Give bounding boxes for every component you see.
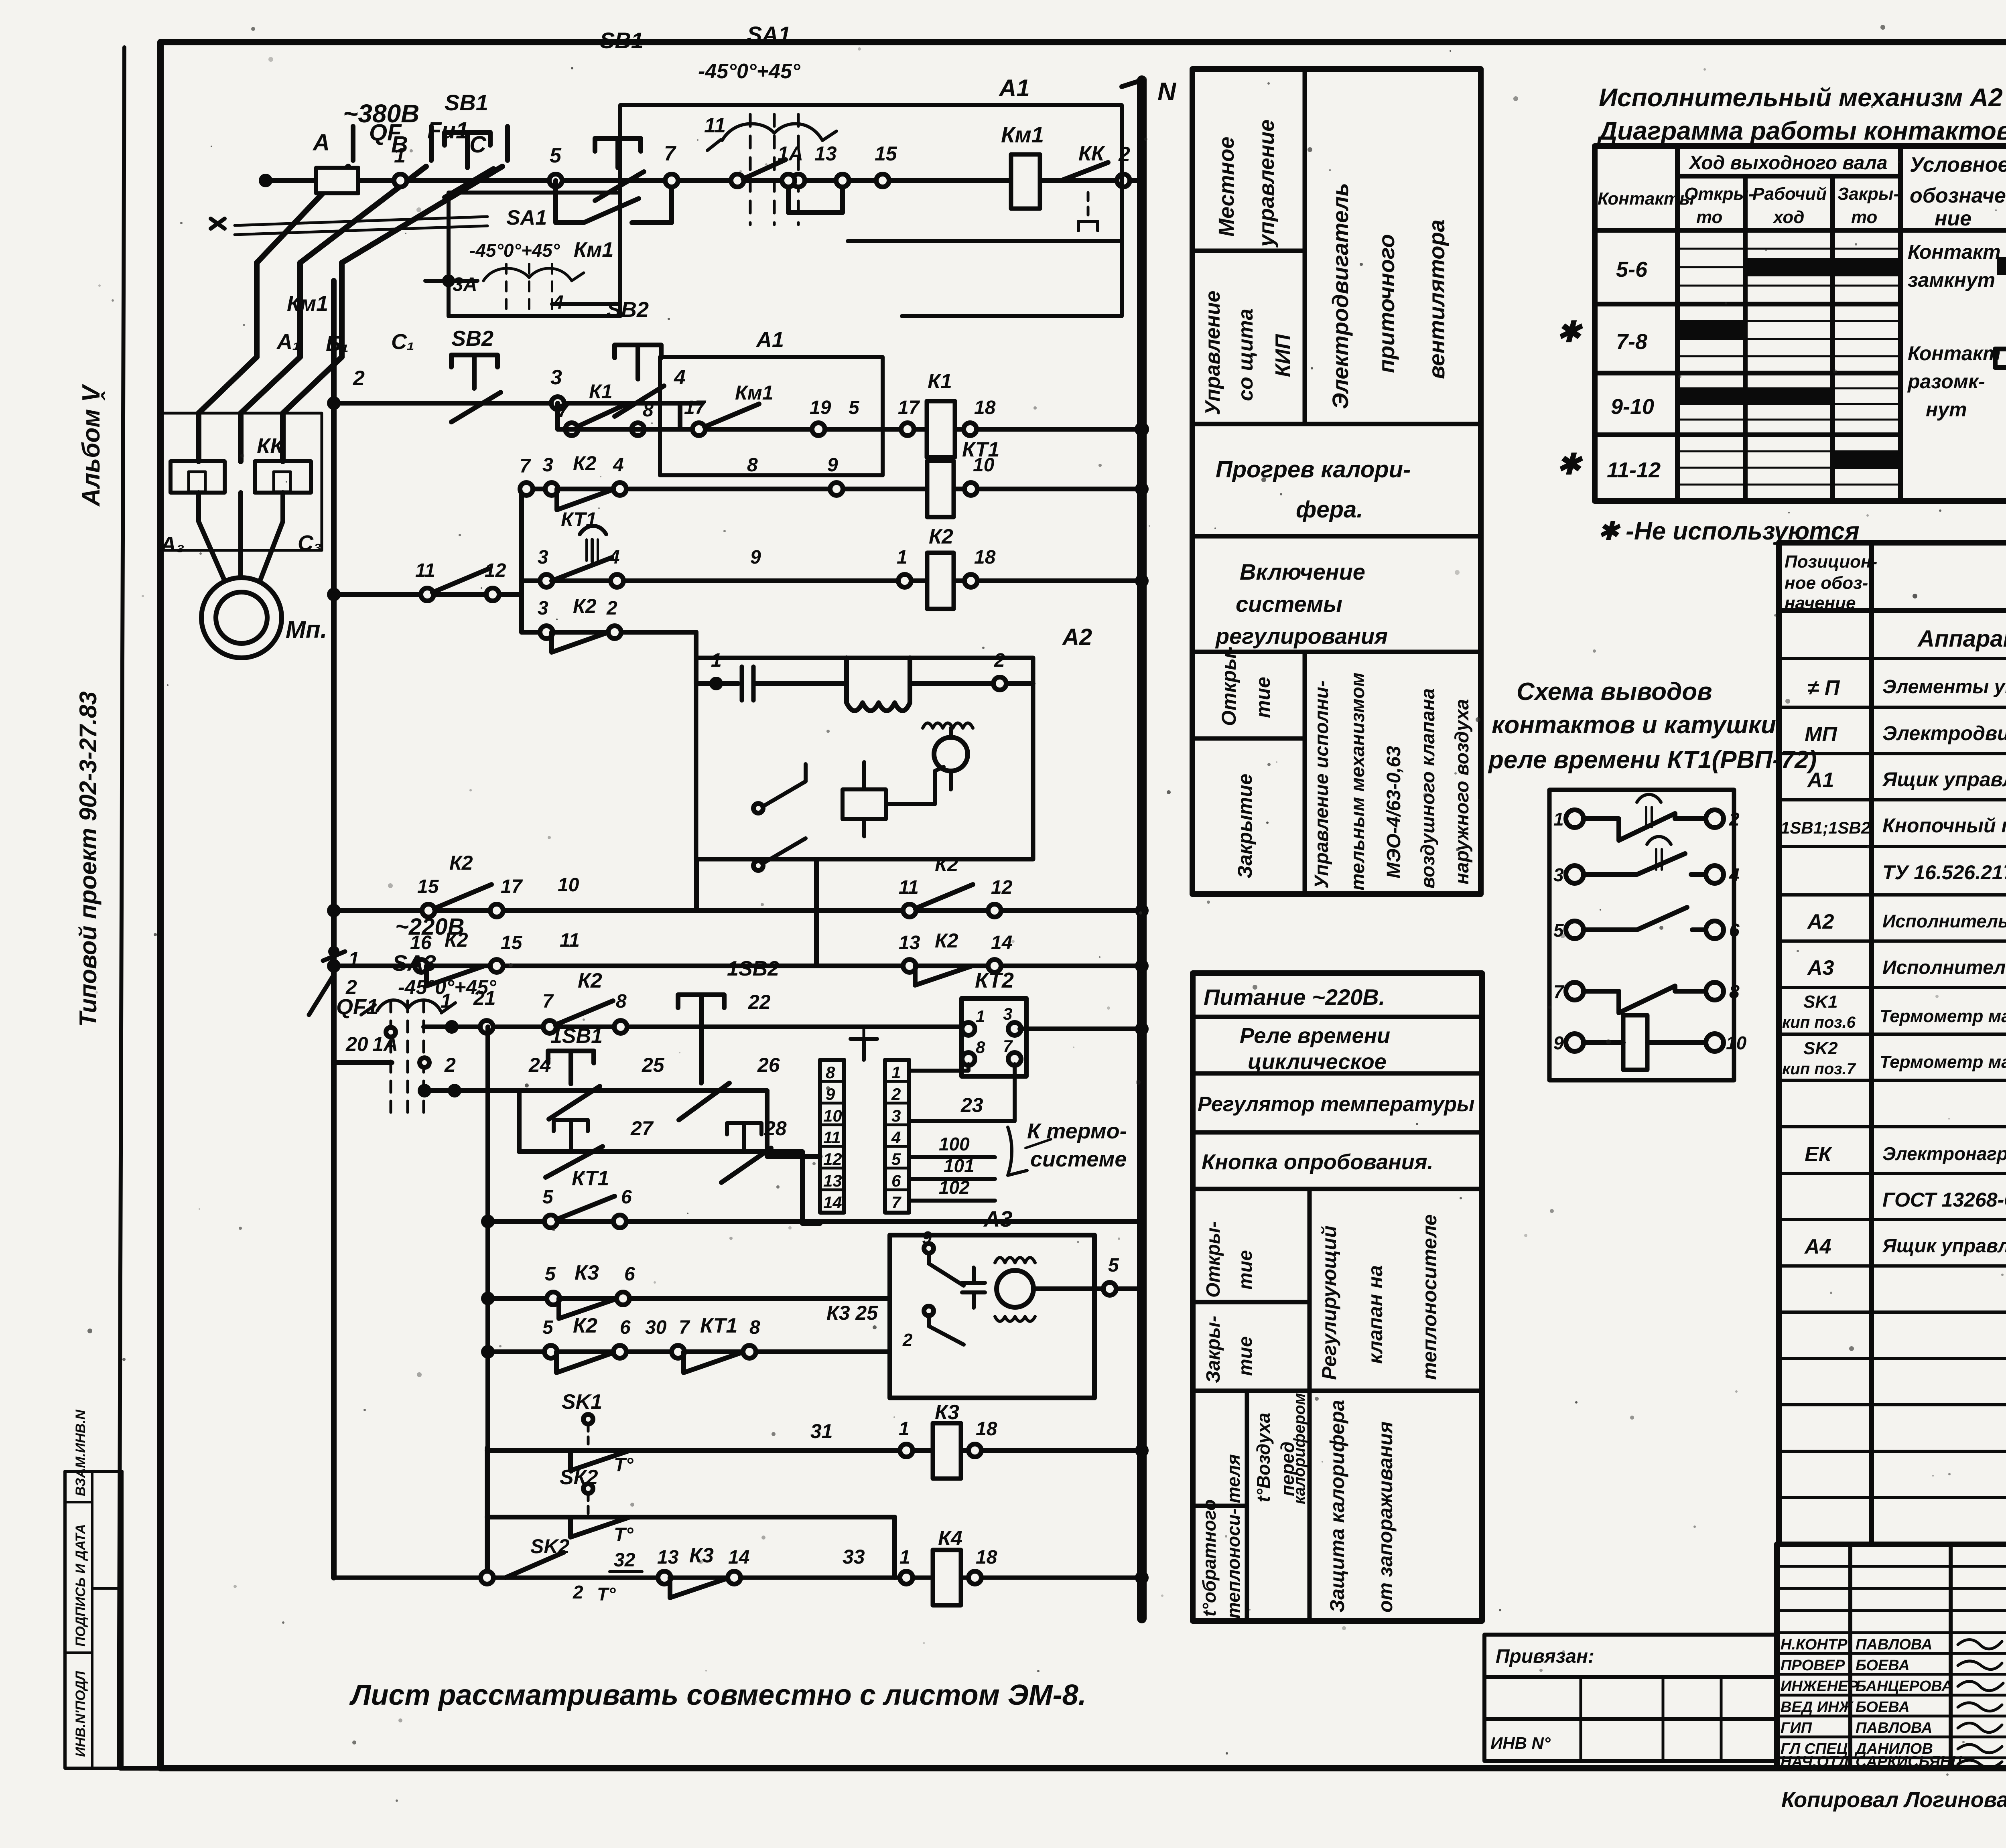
svg-text:SK1: SK1 xyxy=(1803,992,1838,1012)
svg-text:t°Воздуха: t°Воздуха xyxy=(1253,1413,1274,1502)
svg-text:Км1: Км1 xyxy=(574,238,613,262)
svg-text:Мп.: Мп. xyxy=(286,616,327,643)
svg-text:К4: К4 xyxy=(938,1527,962,1550)
contact K2 NC notch xyxy=(557,489,615,510)
black bar row 5-6 xyxy=(1745,258,1900,276)
black bar row 7-8 xyxy=(1677,321,1745,340)
svg-text:то: то xyxy=(1851,207,1877,227)
svg-text:t°обратного: t°обратного xyxy=(1199,1499,1220,1617)
svg-text:Регулятор температуры: Регулятор температуры xyxy=(1198,1093,1474,1116)
svg-text:SK1: SK1 xyxy=(562,1390,602,1414)
svg-text:7: 7 xyxy=(558,400,569,422)
svg-text:18: 18 xyxy=(976,1547,997,1568)
wire row 2-24-1SB1-25-1SB2-26 xyxy=(424,1088,767,1093)
svg-text:Б₁: Б₁ xyxy=(326,332,349,356)
svg-text:QF: QF xyxy=(369,120,402,146)
svg-text:3: 3 xyxy=(1003,1004,1012,1023)
svg-text:11: 11 xyxy=(415,560,435,581)
contact diagram table xyxy=(1595,146,2006,501)
svg-text:101: 101 xyxy=(944,1155,975,1176)
svg-text:Включение: Включение xyxy=(1240,559,1365,584)
svg-text:32: 32 xyxy=(614,1550,636,1571)
relay KT2 box xyxy=(962,998,1026,1076)
parts list table xyxy=(1779,543,2006,1544)
svg-text:САРКИСЬЯНЦ: САРКИСЬЯНЦ xyxy=(1856,1753,1962,1770)
svg-text:2: 2 xyxy=(902,1330,913,1350)
svg-text:1SB1;1SB2: 1SB1;1SB2 xyxy=(1781,818,1870,837)
svg-text:1SB1: 1SB1 xyxy=(550,1024,603,1048)
wire row 16-K2-15-11 and 13-K2-14 xyxy=(334,964,1142,968)
svg-text:Лист рассматривать совместно с: Лист рассматривать совместно с листом ЭМ… xyxy=(349,1679,1086,1711)
svg-text:К термо-: К термо- xyxy=(1027,1119,1127,1143)
svg-text:Управление: Управление xyxy=(1201,291,1224,415)
phase ticks A B C xyxy=(353,126,508,160)
switch 1 in A3 xyxy=(924,1243,934,1253)
svg-text:Км1: Км1 xyxy=(1001,122,1044,147)
node 2 xyxy=(1117,174,1130,187)
svg-text:9: 9 xyxy=(922,1228,932,1248)
contact K1 7-8 parallel branch xyxy=(558,403,680,429)
svg-text:ние: ние xyxy=(1935,207,1971,230)
svg-text:13: 13 xyxy=(823,1171,842,1190)
wire row SK1 to K3 coil xyxy=(487,1448,1142,1453)
svg-text:Контакт: Контакт xyxy=(1908,241,2001,263)
svg-text:нут: нут xyxy=(1926,398,1967,421)
svg-text:А1: А1 xyxy=(1807,769,1834,792)
svg-text:9: 9 xyxy=(827,454,838,476)
node 3 xyxy=(551,397,564,410)
wires to KK xyxy=(199,413,283,461)
svg-text:К3: К3 xyxy=(575,1261,599,1284)
svg-text:кип поз.7: кип поз.7 xyxy=(1782,1060,1856,1078)
svg-text:К2: К2 xyxy=(449,852,473,874)
svg-text:SB1: SB1 xyxy=(445,90,488,115)
wire row K3 5-6 xyxy=(488,1296,890,1301)
wire row 2 SB2 xyxy=(334,401,702,406)
wire row 11-12 from bus xyxy=(334,592,522,597)
svg-text:Контакты: Контакты xyxy=(1598,189,1694,209)
svg-text:К2: К2 xyxy=(935,853,958,876)
svg-text:10: 10 xyxy=(973,454,995,476)
svg-text:ВЗАМ.ИНВ.N: ВЗАМ.ИНВ.N xyxy=(73,1409,88,1496)
svg-text:системы: системы xyxy=(1236,591,1342,617)
svg-text:-45°0°+45°: -45°0°+45° xyxy=(698,60,801,83)
svg-text:SA3: SA3 xyxy=(392,950,436,976)
svg-text:МЭО-4/63-0,63: МЭО-4/63-0,63 xyxy=(1383,746,1405,878)
outer left border line xyxy=(119,47,124,1768)
svg-text:Км1: Км1 xyxy=(287,292,328,316)
svg-text:6: 6 xyxy=(621,1187,632,1208)
svg-text:3: 3 xyxy=(538,547,548,568)
svg-text:5: 5 xyxy=(542,1187,554,1208)
control box A1 lower outline xyxy=(660,357,883,475)
svg-text:23: 23 xyxy=(960,1094,983,1116)
svg-text:Н.КОНТР: Н.КОНТР xyxy=(1781,1636,1848,1653)
svg-text:11: 11 xyxy=(560,930,580,951)
svg-text:реле времени КТ1(РВП-72): реле времени КТ1(РВП-72) xyxy=(1488,746,1817,774)
svg-text:КК: КК xyxy=(257,434,285,458)
svg-text:1: 1 xyxy=(891,1063,901,1082)
svg-text:К1: К1 xyxy=(928,370,952,393)
svg-text:Типовой проект 902-3-27.83: Типовой проект 902-3-27.83 xyxy=(75,692,102,1027)
wire row KT1 5-6 xyxy=(488,1219,1142,1224)
wire KT2 pin8 to strip 1 xyxy=(909,1064,968,1071)
node 1 xyxy=(394,174,407,187)
svg-text:ное обоз-: ное обоз- xyxy=(1785,573,1868,593)
KT1 pin 9-10 coil xyxy=(1566,1034,1584,1051)
svg-text:7: 7 xyxy=(664,142,676,165)
svg-text:2: 2 xyxy=(1729,809,1740,830)
svg-text:1: 1 xyxy=(897,547,908,568)
KT1 pin 7-8 xyxy=(1566,982,1584,1000)
svg-text:1: 1 xyxy=(394,144,406,167)
svg-text:начение: начение xyxy=(1785,593,1856,613)
svg-text:5-6: 5-6 xyxy=(1616,258,1648,282)
svg-text:Т°: Т° xyxy=(597,1584,616,1605)
bus left control xyxy=(331,281,337,1578)
svg-text:Электродвигатель: Электродвигатель xyxy=(1328,183,1353,409)
svg-text:7: 7 xyxy=(679,1317,690,1338)
svg-text:7: 7 xyxy=(891,1193,901,1212)
svg-text:ИНВ N°: ИНВ N° xyxy=(1490,1734,1551,1753)
svg-text:21: 21 xyxy=(473,987,496,1009)
svg-text:ИНВ.N'ПОДЛ: ИНВ.N'ПОДЛ xyxy=(73,1671,88,1757)
svg-text:К2: К2 xyxy=(929,525,953,548)
svg-text:1А: 1А xyxy=(778,142,803,165)
svg-text:8: 8 xyxy=(747,454,758,476)
svg-text:✱: ✱ xyxy=(1557,316,1583,348)
svg-text:А4: А4 xyxy=(1804,1235,1831,1258)
svg-text:Питание ~220В.: Питание ~220В. xyxy=(1204,984,1385,1010)
svg-text:то: то xyxy=(1696,207,1722,227)
contact KM1 aux xyxy=(705,404,759,427)
svg-text:К3 25: К3 25 xyxy=(826,1302,878,1324)
svg-text:7: 7 xyxy=(542,991,554,1012)
svg-text:А1: А1 xyxy=(755,328,784,352)
svg-text:Аппаратура по месту: Аппаратура по месту xyxy=(1917,626,2006,652)
wire row 27-28 xyxy=(519,1091,802,1152)
svg-text:БОЕВА: БОЕВА xyxy=(1856,1657,1910,1674)
svg-text:Закрытие: Закрытие xyxy=(1234,774,1256,878)
svg-text:Закры-: Закры- xyxy=(1203,1316,1224,1383)
svg-text:SA1: SA1 xyxy=(747,22,791,47)
svg-text:100: 100 xyxy=(939,1134,970,1154)
svg-text:тельным механизмом: тельным механизмом xyxy=(1347,673,1368,891)
svg-text:Откры-: Откры- xyxy=(1218,646,1240,726)
svg-text:тие: тие xyxy=(1235,1250,1256,1290)
svg-text:Схема выводов: Схема выводов xyxy=(1517,678,1712,706)
svg-text:17: 17 xyxy=(898,397,920,418)
svg-text:Альбом V̭: Альбом V̭ xyxy=(77,383,105,507)
svg-text:7-8: 7-8 xyxy=(1616,330,1647,354)
svg-text:5: 5 xyxy=(545,1264,556,1285)
svg-text:Электродвигатель 4А112М86~380В: Электродвигатель 4А112М86~380В; 4кВт. xyxy=(1882,722,2006,744)
svg-text:тие: тие xyxy=(1235,1336,1256,1376)
svg-text:8: 8 xyxy=(643,400,654,421)
svg-text:Термометр манометрический ТПГ-: Термометр манометрический ТПГ-СК ГОСТ862… xyxy=(1880,1006,2006,1026)
function table 1 xyxy=(1192,69,1481,894)
svg-text:системе: системе xyxy=(1030,1147,1127,1171)
svg-text:Местное: Местное xyxy=(1214,137,1239,237)
svg-text:Т°: Т° xyxy=(614,1454,633,1476)
svg-text:5: 5 xyxy=(550,144,562,167)
svg-text:6: 6 xyxy=(1729,920,1740,941)
svg-text:Откры-: Откры- xyxy=(1684,184,1754,204)
svg-text:✱: ✱ xyxy=(1557,448,1583,481)
svg-text:18: 18 xyxy=(976,1418,997,1440)
arrow to thermosystem xyxy=(1008,1127,1027,1175)
svg-text:9: 9 xyxy=(750,547,761,568)
wire row SK2 xyxy=(487,1517,895,1578)
svg-text:4: 4 xyxy=(613,454,624,476)
svg-text:6: 6 xyxy=(624,1264,635,1285)
svg-text:20: 20 xyxy=(345,1033,368,1055)
relay block in A2 xyxy=(843,789,886,819)
svg-text:2: 2 xyxy=(994,650,1005,671)
svg-text:Условное: Условное xyxy=(1910,153,2006,176)
svg-text:Термометр манометрический ТПГ-: Термометр манометрический ТПГ-СК ГОСТ 86… xyxy=(1880,1052,2006,1072)
svg-text:4: 4 xyxy=(609,547,620,568)
wire riser x1300 xyxy=(519,489,524,632)
svg-text:К2: К2 xyxy=(578,969,602,992)
svg-text:ПАВЛОВА: ПАВЛОВА xyxy=(1856,1636,1932,1653)
svg-text:А3: А3 xyxy=(983,1206,1013,1231)
wire row 3 K1 coil xyxy=(558,427,1142,432)
box A2 actuator xyxy=(696,658,1033,859)
box P local elements xyxy=(160,413,322,550)
svg-text:Исполнительный механизм клапан: Исполнительный механизм клапана МЭО-4/63… xyxy=(1882,911,2006,931)
svg-text:Прогрев калори-: Прогрев калори- xyxy=(1216,456,1411,483)
svg-text:КТ2: КТ2 xyxy=(975,968,1014,992)
svg-text:Элементы управления электродви: Элементы управления электродвигателем МП xyxy=(1882,676,2006,698)
svg-text:Управление исполни-: Управление исполни- xyxy=(1311,680,1332,889)
svg-text:6: 6 xyxy=(620,1317,631,1338)
svg-text:-45°0°+45°: -45°0°+45° xyxy=(469,240,560,261)
svg-text:5: 5 xyxy=(542,1317,554,1338)
svg-text:тие: тие xyxy=(1252,677,1274,718)
KT1 pin 1-2 xyxy=(1566,810,1584,828)
svg-text:КТ1: КТ1 xyxy=(572,1167,609,1190)
KT1 pin 5-6 xyxy=(1566,921,1584,939)
signatures scribbles xyxy=(1958,1640,2003,1768)
svg-text:8: 8 xyxy=(976,1038,985,1057)
svg-text:от запораживания: от запораживания xyxy=(1374,1421,1397,1613)
svg-text:А2: А2 xyxy=(1807,910,1834,933)
svg-text:SB1: SB1 xyxy=(600,28,644,53)
svg-text:15: 15 xyxy=(417,876,439,897)
winding cutout on A2 top xyxy=(847,658,910,711)
wire 26 drop xyxy=(767,1091,820,1156)
svg-text:теплоносителе: теплоносителе xyxy=(1418,1214,1441,1380)
svg-text:Закры-: Закры- xyxy=(1837,184,1899,204)
svg-text:9-10: 9-10 xyxy=(1611,395,1654,419)
scan noise speckles xyxy=(1703,68,1706,71)
svg-text:К3: К3 xyxy=(935,1401,959,1424)
svg-text:27: 27 xyxy=(630,1117,654,1140)
terminal strip left column xyxy=(820,1060,844,1213)
svg-text:ТУ 16.526.217 - 78: ТУ 16.526.217 - 78 xyxy=(1882,861,2006,884)
svg-text:5: 5 xyxy=(891,1150,901,1168)
svg-text:фера.: фера. xyxy=(1296,497,1363,523)
svg-text:8: 8 xyxy=(616,991,627,1012)
svg-text:замкнут: замкнут xyxy=(1908,269,1995,291)
svg-text:Кнопочный пост управления ПКЕ: Кнопочный пост управления ПКЕ 212-2У3 xyxy=(1882,814,2006,837)
switch SA1 box xyxy=(449,193,620,316)
svg-text:17: 17 xyxy=(684,397,707,418)
svg-text:Рабочий: Рабочий xyxy=(1752,184,1827,204)
svg-text:1: 1 xyxy=(976,1007,985,1026)
svg-text:Регулирующий: Регулирующий xyxy=(1318,1225,1340,1380)
capacitor in A3 xyxy=(962,1268,985,1308)
svg-text:А: А xyxy=(312,130,330,156)
switch 2 in A3 xyxy=(924,1306,934,1316)
svg-text:11: 11 xyxy=(823,1128,841,1147)
contact K1 11-12 xyxy=(432,569,489,592)
svg-text:8: 8 xyxy=(826,1063,835,1082)
svg-text:Ящик управления ЯУ5113-03А2Н (: Ящик управления ЯУ5113-03А2Н (ЯУ-п) xyxy=(1882,768,2006,791)
svg-text:Т°: Т° xyxy=(614,1524,633,1546)
svg-text:3: 3 xyxy=(1553,864,1564,885)
svg-text:SK2: SK2 xyxy=(1803,1039,1838,1058)
svg-text:ГИП: ГИП xyxy=(1781,1720,1812,1736)
T probe above strip xyxy=(851,1039,877,1060)
svg-text:26: 26 xyxy=(757,1054,780,1076)
svg-text:БАНЦЕРОВА: БАНЦЕРОВА xyxy=(1856,1678,1953,1695)
svg-text:12: 12 xyxy=(991,877,1013,898)
wire row 15-K2-17-10 and 11-K2-12 xyxy=(334,908,1142,913)
motor of actuator A2 xyxy=(934,737,968,771)
thermal relay KK heater C xyxy=(255,461,311,493)
svg-text:5: 5 xyxy=(1108,1255,1119,1276)
svg-text:11-12: 11-12 xyxy=(1607,458,1661,482)
svg-text:ПРОВЕР: ПРОВЕР xyxy=(1781,1657,1845,1674)
svg-text:контактов и катушки: контактов и катушки xyxy=(1492,711,1776,739)
svg-text:управление: управление xyxy=(1255,120,1279,248)
limit switch 2 in A2 xyxy=(753,861,763,870)
stamp box bottom-left xyxy=(65,1471,122,1768)
svg-text:N: N xyxy=(1157,77,1177,106)
svg-text:7: 7 xyxy=(1003,1037,1013,1055)
svg-text:Исполнительный механизм клапан: Исполнительный механизм клапана ЛР-1М xyxy=(1882,957,2006,978)
svg-text:3: 3 xyxy=(538,598,548,619)
svg-text:наружного воздуха: наружного воздуха xyxy=(1452,699,1473,884)
svg-text:Привязан:: Привязан: xyxy=(1496,1646,1594,1667)
title block frame xyxy=(1777,1542,2006,1547)
svg-text:разомк-: разомк- xyxy=(1907,370,1985,393)
contact KM1 self-hold branch xyxy=(556,181,672,223)
svg-text:А1: А1 xyxy=(998,75,1030,101)
QF tie bar xyxy=(235,217,487,235)
black bar row 11-12 xyxy=(1833,451,1900,469)
svg-text:А₁: А₁ xyxy=(276,330,300,354)
svg-text:МП: МП xyxy=(1805,723,1837,746)
svg-text:11: 11 xyxy=(899,877,919,898)
svg-text:ПОДПИСЬ И ДАТА: ПОДПИСЬ И ДАТА xyxy=(73,1524,88,1647)
contact K2 15-17 xyxy=(434,884,491,909)
svg-text:Км1: Км1 xyxy=(735,381,774,404)
svg-text:Кнопка опробования.: Кнопка опробования. xyxy=(1202,1150,1433,1174)
svg-text:18: 18 xyxy=(974,547,996,568)
svg-text:К2: К2 xyxy=(573,452,597,475)
contact K2 13-14 xyxy=(915,966,972,985)
svg-text:1: 1 xyxy=(899,1418,910,1440)
svg-text:7: 7 xyxy=(520,456,531,477)
svg-text:3: 3 xyxy=(550,366,562,389)
svg-text:КТ1: КТ1 xyxy=(700,1314,737,1337)
svg-text:3: 3 xyxy=(542,454,553,476)
svg-text:Защита калорифера: Защита калорифера xyxy=(1326,1400,1348,1613)
svg-text:≠ П: ≠ П xyxy=(1807,676,1840,700)
svg-text:К2: К2 xyxy=(935,929,958,952)
svg-text:2: 2 xyxy=(891,1085,901,1104)
svg-text:2: 2 xyxy=(444,1054,456,1076)
svg-text:КК: КК xyxy=(1078,142,1105,165)
svg-text:С: С xyxy=(469,132,487,158)
wire row KT1 coil xyxy=(522,487,1142,491)
svg-text:обозначе-: обозначе- xyxy=(1910,184,2006,207)
wires 100 101 102 xyxy=(909,1157,995,1201)
svg-text:1: 1 xyxy=(1553,809,1564,830)
svg-text:С₃: С₃ xyxy=(298,531,322,555)
node 5 xyxy=(549,174,562,187)
svg-text:10: 10 xyxy=(1726,1033,1747,1053)
svg-text:ИНЖЕНЕР: ИНЖЕНЕР xyxy=(1781,1678,1858,1695)
svg-text:1: 1 xyxy=(899,1547,910,1568)
svg-text:3: 3 xyxy=(891,1106,901,1125)
svg-text:Позицион-: Позицион- xyxy=(1785,552,1877,572)
svg-text:15: 15 xyxy=(501,932,523,953)
svg-text:7: 7 xyxy=(1553,981,1565,1002)
svg-text:кип поз.6: кип поз.6 xyxy=(1782,1014,1856,1031)
svg-text:воздушного клапана: воздушного клапана xyxy=(1417,688,1439,889)
limit switch 1 in A2 xyxy=(753,803,763,813)
svg-text:4: 4 xyxy=(1729,864,1740,885)
contact KT1 timed NC xyxy=(580,526,606,534)
svg-text:Исполнительный механизм А2: Исполнительный механизм А2 xyxy=(1599,83,2003,112)
svg-text:13: 13 xyxy=(814,142,837,165)
svg-text:17: 17 xyxy=(501,876,523,897)
svg-text:приточного: приточного xyxy=(1374,234,1399,373)
svg-text:SB2: SB2 xyxy=(607,298,649,322)
svg-text:22: 22 xyxy=(748,991,771,1013)
terminal strip right column xyxy=(885,1060,909,1213)
wire 23 KT2 pin7 xyxy=(909,1064,1015,1121)
svg-text:Откры-: Откры- xyxy=(1203,1221,1224,1298)
wire riser to A2 bottom xyxy=(814,859,819,966)
svg-text:19: 19 xyxy=(810,397,831,418)
svg-text:ПАВЛОВА: ПАВЛОВА xyxy=(1856,1720,1932,1736)
svg-text:1: 1 xyxy=(348,948,359,970)
wire row 5-K2-6-30-7-KT1-8 xyxy=(488,1349,890,1354)
bus N xyxy=(1137,80,1147,1619)
svg-text:SB2: SB2 xyxy=(451,327,493,351)
wire rail 1 xyxy=(266,178,1142,183)
svg-text:КИП: КИП xyxy=(1271,334,1295,377)
wire row 1-21-7-K2-8-22 xyxy=(424,1024,963,1029)
svg-text:33: 33 xyxy=(843,1546,865,1568)
svg-text:12: 12 xyxy=(485,560,506,581)
svg-text:циклическое: циклическое xyxy=(1248,1050,1387,1074)
svg-text:11: 11 xyxy=(704,114,726,137)
svg-text:регулирования: регулирования xyxy=(1215,623,1388,649)
contact K2 7-8 xyxy=(555,1001,613,1025)
wire row K2 coil xyxy=(522,578,1142,583)
svg-text:Контакт: Контакт xyxy=(1908,342,2001,365)
svg-text:1SB2: 1SB2 xyxy=(727,957,779,980)
svg-text:2: 2 xyxy=(353,367,365,390)
svg-text:14: 14 xyxy=(728,1547,749,1568)
node 7 xyxy=(665,174,678,187)
